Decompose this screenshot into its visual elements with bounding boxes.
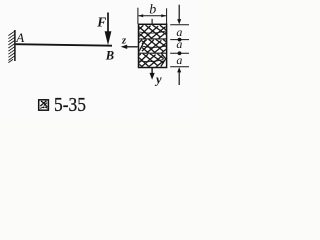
svg-text:b: b (149, 2, 156, 17)
svg-text:5-35: 5-35 (54, 94, 86, 116)
svg-text:A: A (15, 30, 24, 45)
svg-text:y: y (154, 72, 162, 86)
svg-text:a: a (176, 53, 182, 67)
svg-text:a: a (176, 37, 182, 51)
svg-text:B: B (105, 48, 114, 62)
svg-text:F: F (96, 14, 106, 29)
